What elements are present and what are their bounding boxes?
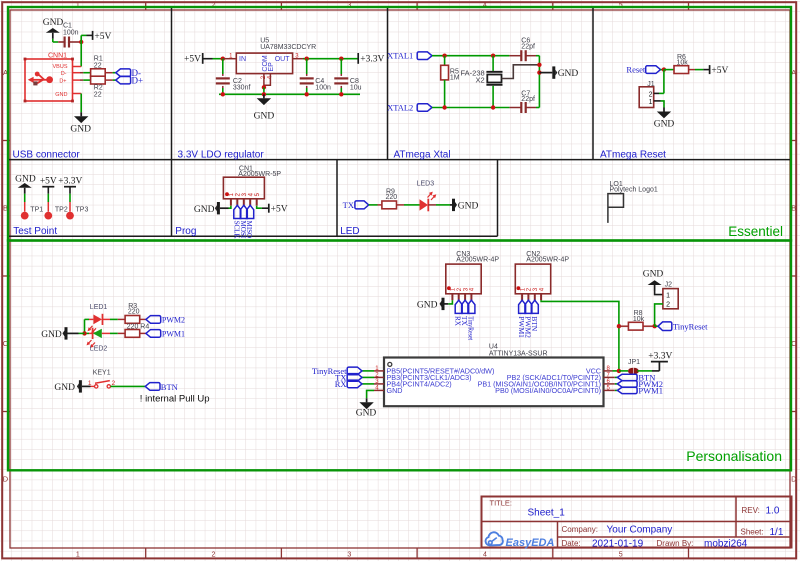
svg-text:GND: GND (254, 112, 275, 122)
wire OUT to +3.3V (303, 58, 358, 60)
capacitor C8 (340, 59, 342, 74)
U5 COM lead (263, 74, 265, 88)
svg-text:3.3V LDO regulator: 3.3V LDO regulator (178, 150, 265, 161)
node C4 top (305, 57, 309, 61)
wire node to R8 (619, 325, 628, 327)
svg-text:330nf: 330nf (233, 85, 251, 92)
wire U4 GND pin (374, 389, 384, 391)
node junction C1/+5V/VBUS (79, 40, 83, 44)
ground symbol (KEY1) (77, 380, 91, 392)
frame column ticks top (145, 2, 147, 10)
svg-text:GND: GND (54, 383, 75, 393)
wire CN1 pin5 to +5V (257, 206, 262, 209)
svg-text:ATmega Xtal: ATmega Xtal (394, 150, 451, 161)
wire rail to GND (79, 332, 85, 334)
connector CN1 (223, 177, 264, 199)
EasyEDA logo (486, 532, 555, 549)
svg-text:1: 1 (649, 99, 653, 106)
svg-text:mobzi264: mobzi264 (704, 539, 748, 550)
svg-text:+3.3V: +3.3V (648, 352, 672, 362)
wire XTAL2 bottom (432, 107, 509, 109)
net flag D+ (116, 76, 131, 84)
svg-text:PB0 (MOSI/AIN0/OC0A/PCINT0): PB0 (MOSI/AIN0/OC0A/PCINT0) (495, 386, 601, 395)
svg-text:2: 2 (649, 92, 653, 99)
CNN1 pin D- stub (73, 72, 81, 74)
svg-text:XTAL2: XTAL2 (387, 102, 413, 112)
wire GND to C1 (52, 39, 54, 42)
svg-text:! internal Pull Up: ! internal Pull Up (140, 394, 210, 405)
svg-text:+3.3V: +3.3V (58, 177, 82, 187)
capacitor C2 (216, 77, 230, 79)
wire LED1 to R3 (103, 318, 111, 320)
svg-text:REV:: REV: (742, 506, 760, 515)
ground symbol (USB) (74, 112, 88, 123)
ground symbol (U4) (359, 398, 373, 409)
svg-text:Reset: Reset (626, 64, 646, 74)
svg-text:R1: R1 (94, 55, 103, 62)
wire LED2 to R4 (102, 332, 110, 334)
net flag TX (U4 pin2) (347, 374, 362, 382)
switch KEY1 (95, 385, 98, 388)
svg-text:5: 5 (619, 551, 623, 558)
right vertical wire (538, 56, 540, 108)
wire R4 to PWM1 (140, 332, 146, 334)
svg-text:EasyEDA: EasyEDA (506, 537, 555, 549)
svg-text:Company:: Company: (562, 525, 598, 534)
net flag PWM2 (146, 316, 161, 324)
net flag D- (116, 69, 131, 77)
svg-text:Drawn By:: Drawn By: (657, 539, 694, 548)
net flag BTN (CN2 pin3) (531, 300, 538, 313)
wire rail to LED1 (85, 318, 90, 320)
capacitor C7 (509, 107, 521, 109)
resistor R8 (628, 322, 643, 330)
capacitor C4 (306, 59, 308, 74)
svg-text:EP: EP (268, 62, 275, 72)
node R5 top (442, 54, 446, 58)
CNN1 pin VBUS stub (73, 66, 82, 68)
svg-text:D-: D- (61, 71, 67, 77)
U4 pin1 orientation marker (388, 362, 392, 366)
test point TP1 (24, 194, 26, 202)
node Reset junction (662, 67, 666, 71)
CN3 pin stubs (451, 294, 453, 301)
svg-text:4: 4 (483, 551, 487, 558)
node LED rail (82, 331, 86, 335)
svg-text:Polytech Logo1: Polytech Logo1 (610, 187, 658, 194)
net flag TinyReset (658, 322, 672, 331)
svg-text:100n: 100n (315, 85, 331, 92)
wire Reset to node (661, 69, 664, 71)
svg-text:C1: C1 (63, 22, 72, 29)
net flag PWM2 (U4 pin6) (617, 381, 637, 387)
capacitor C6 (509, 55, 521, 57)
svg-text:MISO: MISO (245, 221, 253, 239)
LED LED2 (green) (85, 332, 90, 334)
net flag TinyReset (CN3 pin4) (468, 300, 475, 313)
wire CN2 pin4 to VCC net (541, 300, 619, 371)
wire node to TinyReset flag (655, 325, 658, 327)
svg-text:PWM2: PWM2 (162, 316, 185, 325)
power flag +3.3V (U4) (658, 362, 660, 371)
CN2 pin1 marker (517, 286, 521, 290)
J1 pin2 stub (654, 92, 659, 94)
svg-text:22pf: 22pf (521, 43, 535, 50)
J1 pin1 stub (654, 100, 661, 102)
U5 OUT lead (293, 58, 303, 60)
net flag MOSI (CN1 pin3) (240, 205, 247, 218)
resistor R9 (382, 201, 397, 209)
frame column ticks bottom (145, 548, 147, 558)
svg-text:LED3: LED3 (417, 180, 435, 187)
svg-text:PWM1: PWM1 (162, 330, 185, 339)
title block outer (482, 497, 792, 548)
U4 VCC stub (604, 370, 613, 372)
svg-text:100n: 100n (63, 30, 79, 37)
wire J2 pin2 down to node (655, 304, 663, 326)
net flag MISO (CN1 pin4) (247, 205, 254, 218)
svg-text:1.0: 1.0 (766, 506, 780, 517)
wire GND pin down (80, 94, 82, 113)
connector J1 (639, 87, 654, 108)
svg-text:220: 220 (128, 309, 140, 316)
svg-text:BTN: BTN (161, 382, 178, 392)
svg-text:1: 1 (88, 380, 92, 387)
svg-text:1: 1 (666, 293, 670, 300)
svg-text:J1: J1 (647, 81, 655, 88)
crystal X2 (492, 56, 494, 71)
svg-text:1: 1 (76, 551, 80, 558)
svg-text:GND: GND (194, 205, 215, 215)
net flag PWM1 (U4 pin5) (617, 387, 637, 393)
svg-text:GND: GND (43, 18, 64, 28)
svg-text:Sheet_1: Sheet_1 (528, 508, 566, 519)
svg-text:TP3: TP3 (76, 207, 89, 214)
node COM/EP junction (262, 85, 266, 89)
svg-text:22: 22 (94, 63, 102, 70)
node R8 left (617, 324, 621, 328)
CNN1 selection handles (24, 58, 27, 61)
svg-text:Sheet:: Sheet: (741, 528, 764, 537)
net flag BTN (145, 383, 160, 391)
wire node to R6 (664, 69, 674, 71)
node rail COM (262, 92, 266, 96)
svg-text:D: D (791, 475, 797, 484)
svg-text:PWM1: PWM1 (638, 385, 663, 395)
node rail C2 (221, 92, 225, 96)
wire to +5V (80, 35, 82, 42)
wire R1 to D- flag (105, 72, 112, 74)
CN2 pin stubs (521, 294, 523, 301)
regulator U5 (236, 53, 292, 74)
wire C2 to rail (222, 86, 224, 88)
net flag PWM1 (146, 330, 161, 338)
svg-text:GND: GND (55, 92, 67, 98)
svg-text:Date:: Date: (562, 539, 581, 548)
svg-text:+5V: +5V (184, 54, 201, 64)
wire D- to R1 (80, 72, 83, 74)
svg-text:GND: GND (643, 270, 664, 280)
Essentiel part border (8, 7, 791, 241)
connector CN3 (446, 264, 481, 294)
svg-text:TP2: TP2 (55, 207, 68, 214)
frame row ticks right (790, 140, 796, 142)
svg-text:X2: X2 (476, 75, 485, 84)
resistor R1 (91, 69, 106, 77)
LED LED3 (420, 199, 429, 210)
svg-text:A2005WR-4P: A2005WR-4P (456, 256, 499, 263)
svg-text:GND: GND (70, 124, 91, 134)
svg-text:22: 22 (94, 91, 102, 98)
LED LED1 (93, 315, 102, 325)
wire COM to rail (263, 87, 265, 94)
svg-text:D: D (3, 475, 9, 484)
node rail C4 (305, 92, 309, 96)
IC U4 box (384, 358, 604, 407)
connector CN2 (515, 264, 550, 294)
svg-text:2: 2 (666, 301, 670, 308)
svg-text:LED: LED (340, 226, 359, 237)
net flag TinyReset (U4 pin1) (347, 367, 362, 375)
wire D+ to R2 (80, 79, 83, 81)
capacitor C1 (58, 41, 64, 43)
X2 case pin wire (502, 65, 540, 79)
svg-text:2: 2 (212, 551, 216, 558)
svg-text:TinyReset: TinyReset (673, 322, 708, 332)
node X2 bottom (491, 105, 495, 109)
svg-text:KEY1: KEY1 (93, 369, 111, 376)
power flag +5V (USB) (92, 31, 94, 40)
net flag RX (U4 pin3) (347, 380, 362, 388)
ground symbol (J1) (657, 108, 671, 119)
svg-text:BTN: BTN (530, 316, 539, 332)
wire node down to J1 pin2 (663, 70, 665, 94)
wire node down to C2 (222, 59, 224, 74)
logo LO1 symbol (608, 194, 624, 223)
svg-text:J2: J2 (665, 281, 673, 288)
wire XTAL1 top (432, 55, 509, 57)
power flag +5V (Prog) (268, 204, 270, 213)
svg-text:RX: RX (335, 379, 347, 389)
svg-text:Your Company: Your Company (607, 525, 673, 536)
wire +5V node to VBUS pin (80, 42, 82, 67)
CNN1 pin GND stub (73, 93, 82, 95)
ground symbol (Xtal) (539, 66, 557, 78)
svg-text:10u: 10u (350, 85, 362, 92)
test point TP2 (47, 187, 49, 194)
ground symbol (LDO) (257, 94, 271, 105)
svg-text:Prog: Prog (175, 226, 196, 237)
svg-text:+5V: +5V (40, 177, 57, 187)
svg-text:D+: D+ (59, 79, 66, 85)
U5 pin IN lead (223, 58, 237, 60)
svg-text:1M: 1M (450, 75, 460, 82)
CN1 pin1 marker (225, 192, 229, 196)
svg-text:Test Point: Test Point (13, 226, 57, 237)
svg-text:LED2: LED2 (90, 345, 108, 352)
node case pin (537, 63, 541, 67)
U4 right pin stubs 7,6,5 (604, 376, 615, 378)
resistor R6 (674, 66, 689, 74)
frame row ticks left (2, 140, 10, 142)
node R5 bottom (442, 105, 446, 109)
node C8 top (339, 57, 343, 61)
U4 left pin stubs (374, 370, 384, 372)
svg-text:3: 3 (347, 551, 351, 558)
svg-text:220: 220 (386, 194, 398, 201)
svg-text:Essentiel: Essentiel (728, 224, 783, 239)
svg-text:+5V: +5V (711, 66, 728, 76)
net flag PWM1 (CN2 pin1) (519, 300, 526, 313)
svg-text:LED1: LED1 (90, 304, 108, 311)
net flag SCLK (CN1 pin2) (234, 205, 241, 218)
node VCC junction (617, 369, 621, 373)
section box lines row2 (9, 235, 498, 237)
resistor R2 (91, 76, 106, 84)
svg-text:10k: 10k (633, 316, 645, 323)
wire R2 to D+ flag (105, 79, 112, 81)
svg-text:ATmega Reset: ATmega Reset (600, 150, 666, 161)
ground symbol (Prog) (215, 202, 229, 214)
svg-text:ATTINY13A-SSUR: ATTINY13A-SSUR (489, 350, 548, 357)
svg-text:10k: 10k (677, 59, 689, 66)
CNN1 pin D+ stub (73, 79, 81, 81)
svg-text:GND: GND (15, 174, 36, 184)
wire KEY1 to BTN (111, 385, 146, 387)
svg-text:+5V: +5V (94, 32, 111, 42)
power flag +3.3V (LDO output) (357, 53, 359, 64)
svg-text:JP1: JP1 (628, 359, 640, 366)
svg-text:2021-01-19: 2021-01-19 (592, 539, 644, 550)
wire R8 to TinyReset node (643, 325, 655, 327)
svg-text:XTAL1: XTAL1 (387, 51, 413, 61)
wire LED rail (84, 319, 86, 333)
svg-text:GND: GND (356, 408, 377, 418)
resistor R4 (125, 330, 140, 338)
wire +5V to IN node (203, 58, 213, 60)
power flag +5V (Reset) (709, 65, 711, 74)
wire TX to R9 (369, 204, 378, 206)
svg-text:GND: GND (387, 386, 403, 395)
svg-text:220 R4: 220 R4 (127, 324, 150, 331)
node rail C8 (339, 92, 343, 96)
svg-text:UA78M33CDCYR: UA78M33CDCYR (260, 44, 316, 51)
svg-text:22pf: 22pf (521, 96, 535, 103)
node TinyReset junction (652, 324, 656, 328)
wire LED3 to GND (428, 204, 436, 206)
Personalisation part border (8, 241, 791, 471)
CN1 pin stubs (230, 199, 232, 206)
svg-text:GND: GND (417, 301, 438, 311)
svg-text:GND: GND (41, 330, 62, 340)
net flag BTN (U4 pin7) (617, 374, 637, 380)
svg-text:USB connector: USB connector (13, 150, 81, 161)
svg-text:GND: GND (458, 202, 479, 212)
svg-text:A2005WR-4P: A2005WR-4P (526, 256, 569, 263)
test point TP3 (69, 187, 71, 194)
net flag RX (CN3 pin2) (455, 300, 462, 313)
ground symbol (LED) (450, 199, 457, 211)
svg-text:Personalisation: Personalisation (686, 448, 782, 464)
svg-text:TX: TX (343, 200, 354, 210)
net flag PWM2 (CN2 pin2) (525, 300, 532, 313)
net flag TX (CN3 pin3) (462, 300, 469, 313)
wire R3 to PWM2 (140, 318, 146, 320)
connector J2 (663, 289, 678, 309)
wire CN3 pin1 to GND (448, 300, 452, 304)
svg-text:D+: D+ (132, 75, 144, 85)
wire CN1 pin1 to GND (229, 206, 231, 209)
node X2 top (491, 54, 495, 58)
node GND tap (537, 70, 541, 74)
CN3 pin1 marker (447, 286, 451, 290)
svg-text:1/1: 1/1 (770, 527, 784, 538)
svg-text:VBUS: VBUS (53, 64, 68, 70)
ground symbol (CN3) (440, 298, 449, 310)
svg-text:TITLE:: TITLE: (490, 499, 513, 508)
svg-text:+5V: +5V (271, 205, 288, 215)
svg-text:GND: GND (654, 119, 675, 129)
svg-text:OUT: OUT (275, 56, 291, 63)
resistor R3 (125, 316, 140, 324)
ground rail wire (219, 93, 360, 95)
wire VCC to JP1 (619, 370, 628, 372)
wire JP1 to +3.3V (637, 370, 652, 372)
node IN junction (221, 57, 225, 61)
section box lines row1 (9, 159, 790, 161)
ground symbol (LEDs) (63, 327, 79, 339)
svg-text:IN: IN (239, 56, 246, 63)
U5 EP lead (264, 74, 271, 86)
wire GND to J2 pin1 (655, 291, 663, 295)
wire R6 to +5V (689, 69, 695, 71)
svg-text:TinyReset: TinyReset (466, 316, 475, 341)
resistor R5 (444, 56, 446, 66)
title block dividers (482, 521, 792, 523)
svg-text:+3.3V: +3.3V (360, 54, 384, 64)
svg-text:TP1: TP1 (30, 207, 43, 214)
CNN1 USB trident icon (28, 72, 53, 86)
wire R9 to LED3 (397, 204, 405, 206)
svg-text:GND: GND (558, 69, 579, 79)
